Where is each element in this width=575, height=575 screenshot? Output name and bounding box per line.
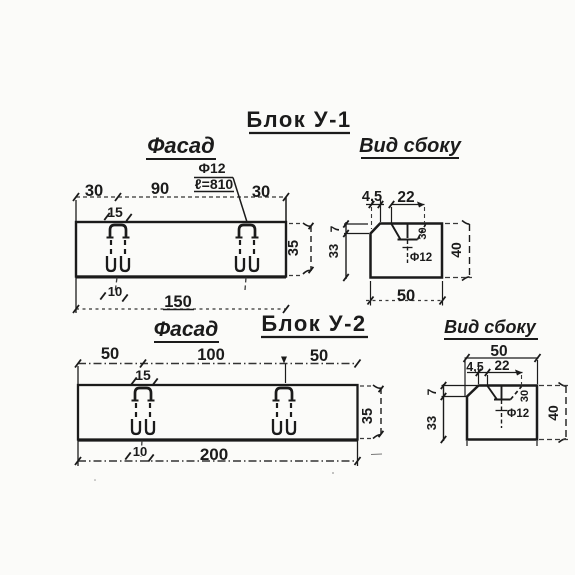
notch bottom (У-1 side) [398, 239, 418, 241]
extension lines 4,5-22 (У-2 side) [479, 364, 522, 386]
extension lines bottom (У-2 side) [467, 441, 537, 446]
extension lines bottom (У-1 side) [371, 281, 443, 306]
dim text 33 (У-1 side) [326, 244, 341, 258]
dim text 15 (У-2) [131, 367, 157, 386]
anchor bar centerline (У-2 side) [496, 400, 508, 428]
svg-text:Вид сбоку: Вид сбоку [444, 317, 537, 337]
extension lines left (У-1 side) [344, 224, 369, 234]
svg-text:30: 30 [417, 227, 429, 239]
svg-text:10: 10 [133, 444, 147, 459]
scan speck 2 [94, 479, 96, 481]
extension lines 22 (У-1 side) [392, 207, 425, 223]
extension lines left (У-2 side) [442, 386, 478, 397]
block У-2 side view outline [467, 386, 537, 440]
extension lines bottom У-2 [78, 440, 358, 467]
notch left slant (У-1 side) [392, 224, 401, 240]
extension line bottom-left У-1 [75, 277, 77, 314]
svg-text:200: 200 [200, 445, 228, 464]
dimension line 200 (У-2 bottom) [75, 457, 361, 465]
svg-text:Фасад: Фасад [154, 318, 218, 341]
leader line to anchor A2 [233, 178, 247, 223]
svg-text:Φ12: Φ12 [198, 160, 225, 176]
dim text 30 (right, У-1) [252, 183, 270, 201]
dim text 40 (У-1 side) [448, 242, 464, 258]
dimension line 4,5-22 (У-2 side) [467, 369, 523, 376]
svg-text:50: 50 [101, 345, 119, 363]
svg-text:50: 50 [397, 287, 415, 305]
centerline below anchor B1 [141, 441, 142, 458]
dim text 10 (У-1) [100, 284, 127, 302]
extension lines right (У-2 side) [539, 386, 569, 440]
svg-text:Φ12: Φ12 [507, 408, 529, 420]
dim text 4,5 (У-2 side) [466, 360, 483, 374]
dimension line 22 (У-1 side) [389, 201, 425, 208]
title Блок У-2 [261, 311, 368, 337]
title Блок У-1 [246, 107, 351, 133]
notch center bar (У-2 side) [501, 386, 503, 399]
svg-text:40: 40 [448, 242, 464, 258]
svg-text:40: 40 [545, 405, 561, 421]
extension lines 4,5 (У-1 side) [372, 196, 381, 229]
notch bottom (У-2 side) [494, 399, 511, 401]
svg-text:30: 30 [519, 390, 531, 402]
notch right slant dashed (У-2 side) [511, 387, 522, 400]
dimension line 50-100-50 (У-2 top) [75, 357, 361, 368]
svg-text:35: 35 [360, 408, 376, 424]
dimension line 7-33 (У-2 side left) [441, 382, 446, 443]
callout Ф12 [194, 160, 233, 178]
svg-text:33: 33 [326, 244, 341, 258]
label Фасад (block У-1) [146, 133, 216, 159]
callout Ф12 (У-1 side) [410, 252, 432, 264]
dim text 22 (У-1 side) [397, 189, 414, 206]
svg-text:10: 10 [108, 284, 122, 299]
block У-1 facade outline [76, 222, 286, 278]
centerline below anchor A1 [115, 278, 117, 294]
dim text 200 [200, 445, 228, 464]
svg-text:15: 15 [135, 367, 151, 383]
label Фасад (block У-2) [154, 318, 219, 342]
notch center bar (У-1 side) [407, 224, 409, 238]
svg-text:22: 22 [494, 358, 509, 373]
anchor bar centerline (У-1 side) [403, 240, 413, 263]
centerline below anchor A2 [245, 278, 246, 291]
dim text 35 (У-2) [360, 408, 376, 424]
dim text 15 (У-1) [104, 204, 131, 221]
svg-text:Вид сбоку: Вид сбоку [359, 135, 462, 157]
svg-text:150: 150 [164, 293, 192, 311]
dim text 150 [163, 293, 194, 311]
svg-text:Фасад: Фасад [147, 133, 214, 158]
extension line left edge У-2 top [77, 366, 79, 385]
dimension line 35 (У-2 right) [373, 385, 383, 439]
dimension line 150 (У-1 bottom) [73, 305, 289, 313]
label Вид сбоку (block У-1) [359, 135, 462, 158]
svg-text:30: 30 [85, 182, 103, 200]
callout l=810 [194, 176, 234, 192]
dim text 30 rotated (У-2 side) [519, 390, 531, 402]
dim text 90 (У-1) [151, 180, 169, 198]
extension line 50 right (У-2 side) [537, 360, 539, 384]
svg-text:100: 100 [197, 346, 225, 364]
dim text 35 (У-1) [286, 240, 302, 256]
dim text 30 rotated (У-1 side) [417, 227, 429, 239]
scan speck 3 [332, 472, 334, 474]
svg-text:Блок У-2: Блок У-2 [261, 311, 366, 336]
notch left slant (У-2 side) [488, 386, 498, 400]
extension line left edge У-1 top [75, 200, 77, 222]
dimension line 40 (У-1 side right) [462, 221, 470, 281]
anchor loop B1 (left, У-2 facade) [132, 388, 155, 434]
dimension line 50 (У-2 side top) [464, 354, 541, 362]
dim text 50 (У-2 side) [490, 343, 507, 360]
dimension line 40 (У-2 side right) [559, 383, 567, 443]
svg-text:Φ12: Φ12 [410, 252, 432, 264]
dim text 4,5 (У-1 side) [362, 189, 382, 205]
dim text 7 (У-1 side) [328, 225, 342, 232]
dim text 10 (У-2) [125, 444, 153, 462]
svg-text:50: 50 [310, 347, 328, 365]
callout Ф12 (У-2 side) [507, 408, 529, 420]
svg-text:22: 22 [397, 189, 414, 206]
dimension line 7-33 (У-1 side left) [343, 220, 348, 281]
svg-text:35: 35 [286, 240, 302, 256]
label Вид сбоку (block У-2) [444, 317, 538, 339]
extension lines right (У-1 side) [445, 224, 472, 278]
dim text 22 (У-2 side) [494, 358, 509, 373]
svg-text:Блок У-1: Блок У-1 [246, 107, 351, 132]
dim text 7 (У-2 side) [425, 388, 439, 395]
extension dash right of У-2 [360, 386, 373, 439]
dimension line 4,5 (У-1 side) [366, 201, 384, 208]
dim text 50 (left, У-2) [101, 345, 119, 363]
anchor loop A2 (right, У-1 facade) [236, 225, 259, 271]
extension tick to anchor B2 [285, 364, 287, 383]
svg-text:7: 7 [425, 388, 439, 395]
scan speck 1 [371, 453, 382, 456]
notch right slant dashed (У-1 side) [418, 225, 426, 240]
dim text 50 (right, У-2) [310, 347, 328, 365]
anchor loop A1 (left, У-1 facade) [107, 225, 130, 271]
svg-text:30: 30 [252, 183, 270, 201]
svg-text:ℓ=810: ℓ=810 [195, 176, 234, 192]
dim text 30 (left, У-1) [85, 182, 103, 200]
svg-text:15: 15 [107, 204, 123, 220]
dim text 100 (У-2) [197, 346, 225, 364]
svg-text:7: 7 [328, 225, 342, 232]
dim text 50 (У-1 side) [397, 287, 415, 305]
svg-text:90: 90 [151, 180, 169, 198]
dim text 40 (У-2 side) [545, 405, 561, 421]
extension line 50 left (У-2 side) [464, 360, 466, 396]
dim text 33 (У-2 side) [424, 416, 439, 430]
extension line right edge У-1 top [285, 197, 287, 222]
anchor loop B2 (right, У-2 facade) [273, 388, 296, 434]
dimension line 50 (У-1 side bottom) [366, 297, 446, 305]
block У-2 facade outline [78, 385, 358, 441]
dimension line 30-90-30 (У-1 top) [73, 193, 289, 201]
dimension line 35 (У-1 right) [303, 223, 313, 274]
extension dash right of У-1 [289, 224, 300, 276]
svg-text:33: 33 [424, 416, 439, 430]
block У-1 side view outline [371, 224, 443, 278]
